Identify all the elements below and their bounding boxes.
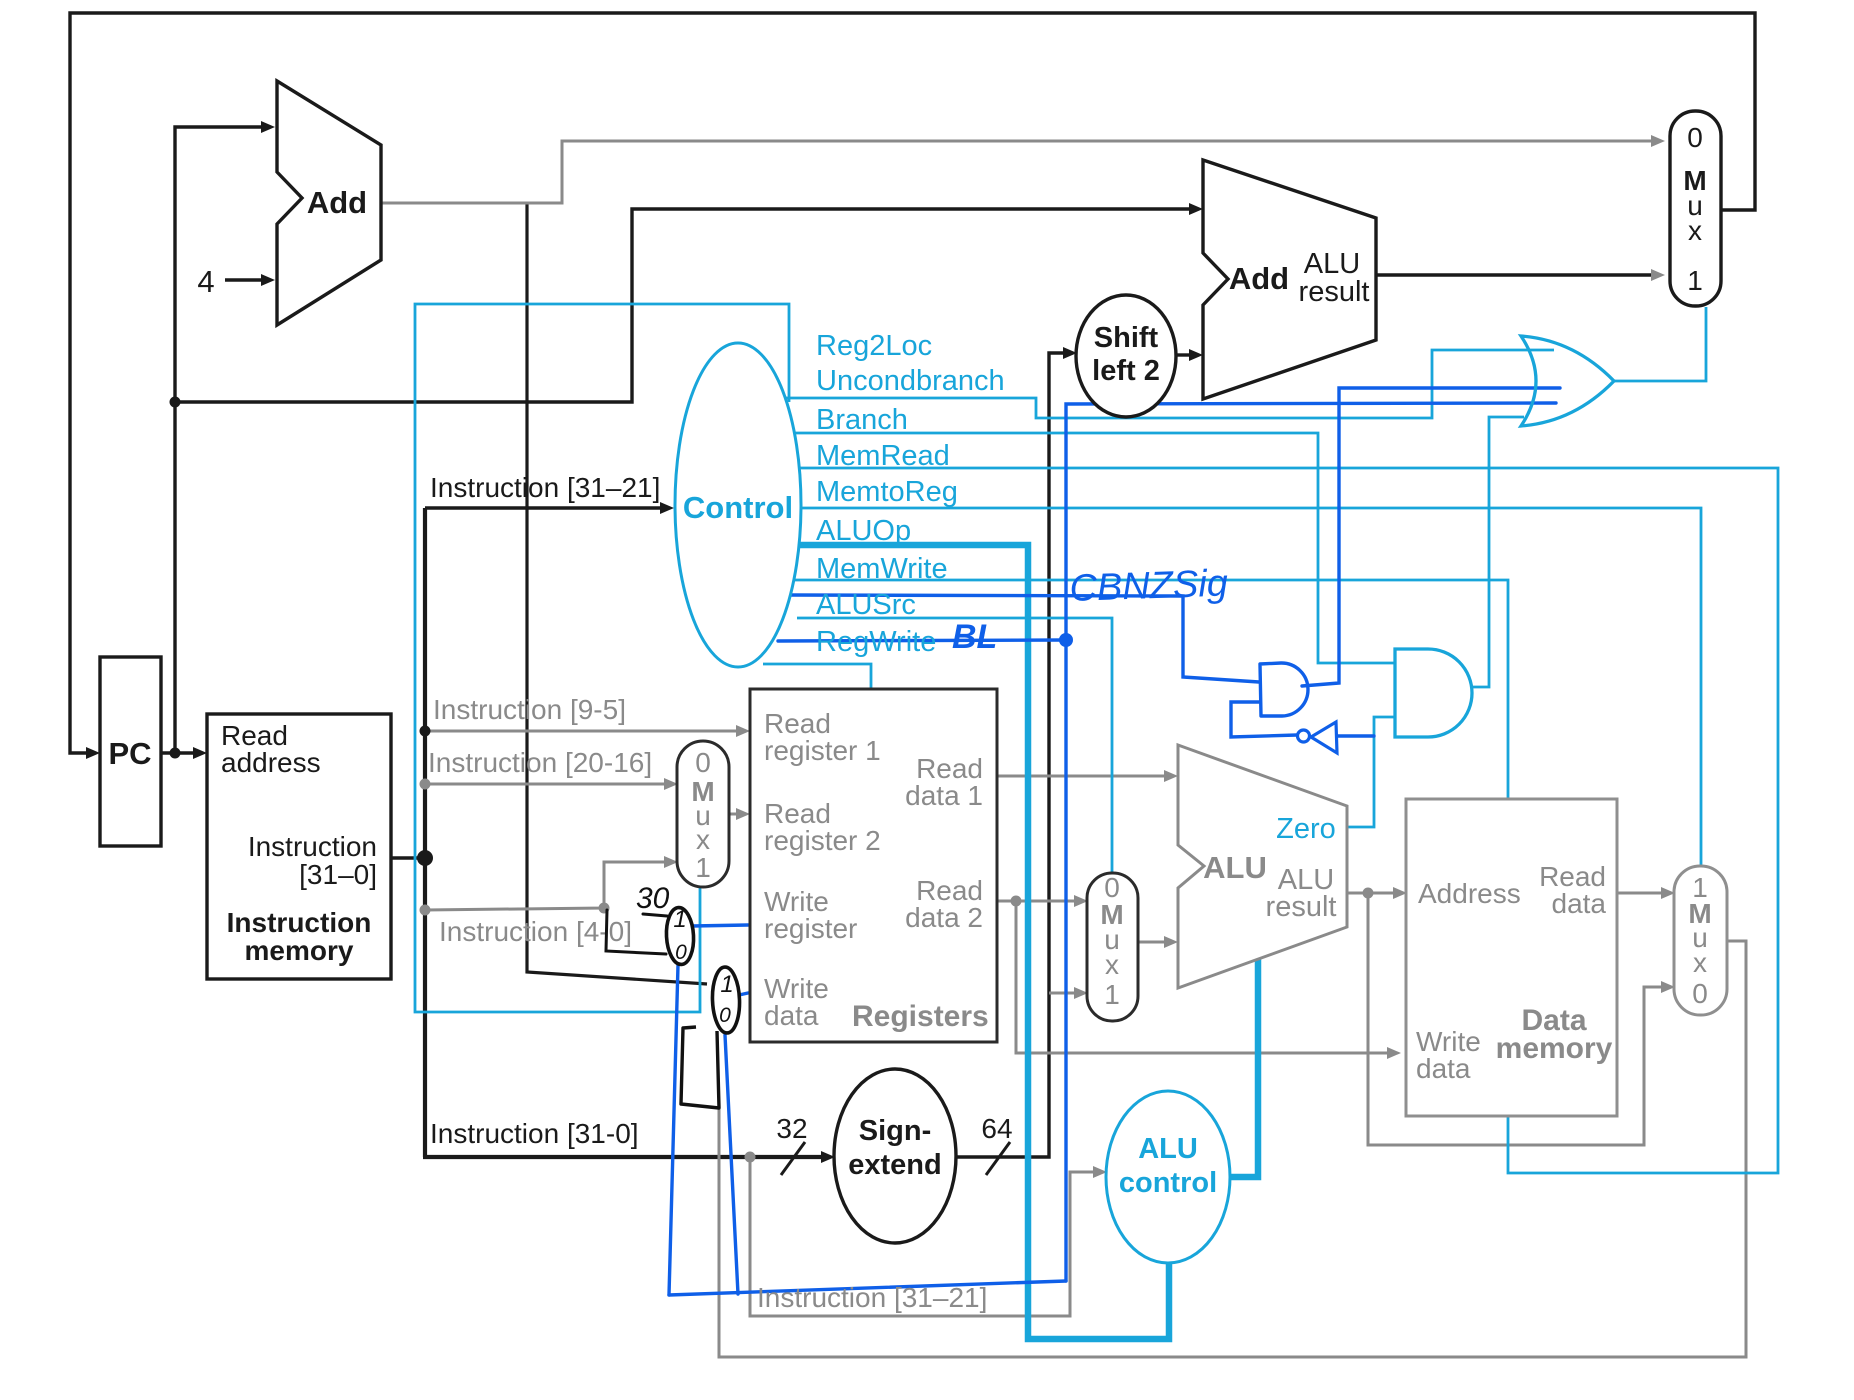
svg-text:0: 0 [1692, 978, 1708, 1009]
svg-text:Instruction [31-0]: Instruction [31-0] [430, 1118, 639, 1149]
svg-text:Add: Add [307, 185, 367, 220]
wire CBNZSig from control to hand AND gate [787, 595, 1259, 682]
wire ALU control output to ALU (thick) [1229, 953, 1258, 1177]
node BL junction dot [1059, 633, 1073, 647]
svg-text:[31–0]: [31–0] [299, 859, 377, 890]
wire Zero to AND gate [1347, 717, 1394, 827]
svg-text:memory: memory [1496, 1032, 1613, 1065]
wire PC to Add2 top input [175, 209, 1192, 402]
svg-text:left 2: left 2 [1092, 355, 1160, 387]
svg-text:MemRead: MemRead [816, 440, 950, 472]
svg-text:result: result [1299, 276, 1370, 308]
svg-text:x: x [1105, 949, 1119, 980]
node ALU result tee [1363, 888, 1374, 899]
wire ALUOp to ALU control (thick) [793, 545, 1169, 1339]
svg-text:Uncondbranch: Uncondbranch [816, 365, 1005, 397]
wire right mux output feedback to registers write data [719, 941, 1746, 1357]
svg-text:data 2: data 2 [905, 902, 983, 933]
svg-text:MemtoReg: MemtoReg [816, 476, 958, 508]
arrow into right mux 1 [1661, 887, 1675, 899]
mux right (1 Mux 0) [1674, 866, 1727, 1015]
arrow into top mux 1 [1651, 269, 1665, 281]
svg-text:PC: PC [108, 736, 151, 771]
arrow into Add1 top [261, 121, 275, 133]
gate AND (cyan) [1395, 649, 1472, 737]
wire Instruction[9-5] to read register 1 [425, 730, 738, 733]
svg-text:ALU: ALU [1138, 1133, 1198, 1165]
wire BL vertical and into OR gate [1066, 403, 1556, 1281]
svg-text:address: address [221, 747, 321, 778]
svg-text:1: 1 [695, 852, 711, 883]
svg-text:0: 0 [675, 941, 687, 964]
node Instruction[20-16] tee [420, 779, 431, 790]
arrow into ALU control [1093, 1166, 1107, 1178]
svg-text:0: 0 [719, 1004, 731, 1027]
svg-text:Zero: Zero [1276, 813, 1336, 845]
wire MemRead to data memory [786, 468, 1778, 1173]
wire MemtoReg to right mux select [790, 508, 1701, 865]
node PC branch tee [170, 397, 181, 408]
WIRES-BLACK [70, 13, 1755, 1157]
wire ALU result to data memory address [1347, 892, 1395, 895]
gate AND hand-drawn (royal) [1260, 663, 1308, 716]
wire write-register mux output [692, 925, 748, 926]
arrow into ALU input 2 [1164, 936, 1178, 948]
wire BL tap on RegWrite row [778, 640, 1066, 641]
arrow into top mux 0 [1651, 135, 1665, 147]
svg-text:x: x [1693, 947, 1707, 978]
node Instruction[4-0] up tee [599, 903, 610, 914]
svg-text:64: 64 [981, 1113, 1012, 1144]
svg-text:result: result [1266, 891, 1337, 923]
wire Instruction[31-21] to Control [425, 506, 661, 509]
arrow into data memory address [1393, 887, 1407, 899]
JUNCTION DOTS [170, 397, 434, 867]
svg-text:control: control [1119, 1167, 1217, 1199]
wire inverter output to hand AND [1231, 702, 1297, 737]
svg-text:Instruction: Instruction [248, 831, 377, 862]
arrow into regs mux 0 [664, 778, 678, 790]
mux top-right (0 Mux 1) [1670, 111, 1721, 306]
register PC [100, 657, 161, 846]
wire Reg2Loc to regs mux select [415, 304, 789, 1012]
wire inverter input tap from Zero [1338, 734, 1374, 737]
wire AND output to OR gate [1470, 417, 1524, 687]
svg-text:register 1: register 1 [764, 735, 881, 766]
arrow into sign-extend [821, 1151, 835, 1163]
WIRES-ROYAL-HAND [669, 388, 1560, 1295]
svg-text:32: 32 [776, 1113, 807, 1144]
wire ALUSrc to ALU mux select [797, 618, 1112, 872]
svg-text:Instruction [31–21]: Instruction [31–21] [430, 472, 660, 503]
node Instruction[9-5] tee [420, 726, 431, 737]
wire regs mux output to read register 2 [729, 813, 738, 816]
wire OR output to top mux select [1614, 307, 1706, 381]
svg-text:Address: Address [1418, 878, 1521, 909]
wire read data 2 branch to data memory write data [1016, 901, 1389, 1053]
svg-text:extend: extend [848, 1149, 941, 1181]
svg-text:Reg2Loc: Reg2Loc [816, 330, 932, 362]
wire Add2 output to top mux input 1 [1376, 273, 1653, 276]
wire sign-extend branch to ALU mux input 1 [1049, 992, 1076, 995]
wire BL bottom run to mux selects [669, 1281, 1066, 1295]
svg-text:register: register [764, 913, 857, 944]
svg-text:1: 1 [1687, 265, 1703, 296]
wire PC output to instruction memory [161, 751, 198, 754]
wire BL select riser to write-register mux [669, 965, 678, 1295]
svg-text:data: data [1416, 1053, 1471, 1084]
wire instruction memory output [391, 856, 425, 859]
wire hand-drawn PC+4 tap to write-data mux [527, 204, 707, 984]
svg-text:ALUSrc: ALUSrc [816, 589, 916, 621]
arrow into regs mux 1 [664, 856, 678, 868]
gate NOT hand-drawn inverter [1298, 722, 1338, 753]
svg-text:Sign-: Sign- [859, 1115, 932, 1147]
svg-text:x: x [1688, 215, 1702, 246]
wire Branch to AND gate [784, 433, 1394, 663]
svg-text:Instruction [31–21]: Instruction [31–21] [757, 1282, 987, 1313]
register file Registers [750, 689, 997, 1042]
wire PC up to Add1 [175, 127, 262, 753]
svg-text:1: 1 [720, 971, 733, 998]
wire hand AND output to OR gate [1302, 388, 1560, 686]
arrow into read register 2 [736, 808, 750, 820]
mux hand-drawn write-register (1/0) [665, 906, 695, 965]
svg-text:ALUOp: ALUOp [816, 515, 911, 547]
node PC output tee [170, 748, 181, 759]
svg-text:1: 1 [673, 906, 686, 933]
wire constant 4 into Add1 [225, 278, 262, 281]
svg-text:data: data [1552, 888, 1607, 919]
adder Add2 (branch target) [1203, 160, 1376, 399]
svg-text:ALU: ALU [1203, 850, 1267, 885]
svg-text:Registers: Registers [852, 1000, 989, 1033]
svg-text:Instruction [9-5]: Instruction [9-5] [433, 694, 626, 725]
svg-text:0: 0 [1687, 122, 1703, 153]
arrow into ALU input 1 [1164, 770, 1178, 782]
shape hand-drawn whiteout rectangle [681, 1027, 719, 1108]
wire BL select riser to write-data mux [725, 1035, 738, 1294]
wire RegWrite to registers [763, 664, 871, 688]
ellipse Sign-extend [834, 1069, 956, 1243]
wire hand 30 into mux [643, 914, 667, 916]
wire shift left 2 output to Add2 [1176, 353, 1192, 356]
arrow into right mux 0 [1661, 981, 1675, 993]
arrow into ALU mux 0 [1074, 895, 1088, 907]
memory Instruction memory [207, 714, 391, 979]
wire sign-extend output up to shift left 2 [956, 353, 1065, 1157]
wire instruction vertical bus and Instruction[31-0] to sign-extend (thick) [423, 508, 823, 1157]
arrow into Control [660, 502, 674, 514]
wire MemWrite to data memory [795, 580, 1508, 798]
node read data 2 tee [1011, 896, 1022, 907]
WIRES-GRAY [381, 141, 1746, 1357]
svg-text:30: 30 [636, 882, 670, 915]
wire PC feedback loop from top mux output [70, 13, 1755, 753]
wire write-data mux output [739, 993, 748, 995]
wire read data 1 to ALU [997, 775, 1166, 778]
wire hand Instruction[4-0] into mux 0 input [606, 910, 666, 954]
svg-text:1: 1 [1104, 979, 1120, 1010]
adder Add1 (PC+4) [277, 81, 381, 325]
svg-text:MemWrite: MemWrite [816, 553, 948, 585]
wire Uncondbranch to OR gate [785, 350, 1554, 418]
wire Instruction[4-0] [425, 862, 666, 910]
node instruction bus tee [417, 850, 433, 866]
wire Instruction[20-16] to regs mux input 0 [425, 783, 666, 786]
arrow into Add2 top [1189, 203, 1203, 215]
wire Add1 output to top mux input 0 [381, 141, 1653, 203]
wire Instruction[31-21] to ALU control [750, 1157, 1095, 1316]
svg-text:data: data [764, 1000, 819, 1031]
wire ALU mux output to ALU [1138, 941, 1166, 944]
svg-text:BL: BL [952, 618, 997, 656]
arrow into read register 1 [736, 725, 750, 737]
node Instruction[4-0] tee [420, 905, 431, 916]
svg-text:Shift: Shift [1094, 322, 1159, 354]
arrow into read address [193, 747, 207, 759]
svg-text:memory: memory [245, 935, 354, 966]
svg-text:0: 0 [695, 747, 711, 778]
svg-text:Add: Add [1229, 261, 1289, 296]
svg-text:x: x [696, 824, 710, 855]
wire read data 2 to ALU mux [997, 900, 1076, 903]
svg-text:RegWrite: RegWrite [816, 626, 936, 658]
WIRES-CYAN [415, 304, 1778, 1173]
wire data memory read data to right mux input 1 [1617, 892, 1663, 895]
svg-text:Instruction: Instruction [227, 907, 372, 938]
svg-text:Control: Control [683, 490, 793, 525]
control unit Control [675, 343, 801, 667]
gate OR (cyan) [1521, 336, 1614, 426]
control unit ALU control [1106, 1091, 1230, 1263]
node Instruction[31-0] sign-extend tee [745, 1152, 756, 1163]
ellipse Shift left 2 [1076, 295, 1176, 417]
svg-text:CBNZSig: CBNZSig [1069, 562, 1229, 610]
arrow into data memory write data [1387, 1047, 1401, 1059]
svg-text:Branch: Branch [816, 404, 908, 436]
svg-text:Instruction [20-16]: Instruction [20-16] [428, 747, 652, 778]
ARROWHEADS [86, 121, 1203, 1163]
arrow into ALU mux 1 [1074, 987, 1088, 999]
svg-text:register 2: register 2 [764, 825, 881, 856]
mux hand-drawn write-data (1/0) [711, 967, 740, 1034]
svg-text:data 1: data 1 [905, 780, 983, 811]
arrow into Add1 bottom [261, 274, 275, 286]
mux regs-mux (0 Mux 1) [677, 741, 729, 887]
arrow into PC [86, 747, 100, 759]
arrow into shift left 2 [1063, 347, 1077, 359]
arrow into Add2 bottom [1189, 349, 1203, 361]
alu ALU main [1178, 745, 1347, 988]
svg-text:Instruction [4-0]: Instruction [4-0] [439, 916, 632, 947]
svg-text:4: 4 [197, 264, 214, 299]
mux ALU-mux (0 Mux 1) [1087, 872, 1138, 1021]
wire ALU result bypass to right mux input 0 [1368, 893, 1663, 1145]
memory Data memory [1406, 799, 1617, 1116]
